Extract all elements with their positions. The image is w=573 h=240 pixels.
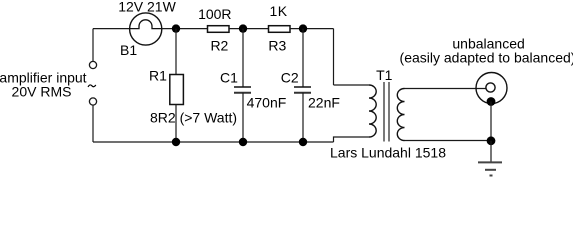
node B junction dot (R2/R3/C1)	[239, 24, 247, 32]
resistor R2 (horizontal)	[208, 26, 230, 33]
transformer T1 primary winding (left coil)	[369, 85, 376, 137]
wire: R3 to top-right corner through node C	[290, 28, 334, 30]
resistor R1 (vertical)	[170, 75, 184, 105]
wire: top-right corner down to T1 primary top	[333, 29, 335, 85]
wire: C2 bottom plate to bottom rail	[302, 93, 304, 142]
wire: C1 bottom plate to bottom rail	[242, 93, 244, 142]
junction dot: C2 to bottom rail	[299, 138, 307, 146]
svg-text:100R: 100R	[198, 6, 231, 22]
svg-text:C2: C2	[281, 69, 299, 85]
wire: node A down to R1 top	[175, 29, 177, 75]
svg-text:470nF: 470nF	[247, 95, 287, 111]
terminal: amplifier input upper (open circle)	[89, 61, 96, 68]
resistor R3 (horizontal)	[269, 26, 291, 33]
svg-text:1K: 1K	[269, 3, 287, 19]
svg-text:(easily adapted to balanced): (easily adapted to balanced)	[400, 50, 573, 66]
wire: node C down to C2 top plate	[302, 29, 304, 87]
label: AC symbol ~	[88, 85, 96, 87]
svg-text:20V RMS: 20V RMS	[12, 84, 72, 100]
junction dot: R1 to bottom rail	[172, 138, 180, 146]
transformer T1 secondary winding (right coil)	[397, 89, 404, 141]
wire: secondary bottom to ground node	[405, 140, 492, 142]
wire: secondary top to output jack centre pin	[405, 88, 487, 90]
node A junction dot (lamp/R2/R1)	[172, 24, 180, 32]
junction dot: jack shield connection	[487, 97, 496, 106]
wire: ground node down to ground symbol	[490, 141, 492, 162]
wire: top-left horizontal from left branch to lamp B1	[93, 28, 130, 30]
wire: horizontal into T1 primary top	[334, 84, 370, 86]
svg-text:R1: R1	[149, 68, 167, 84]
wire: T1 primary bottom back to bottom rail	[334, 137, 370, 142]
svg-text:12V 21W: 12V 21W	[118, 0, 176, 15]
ground symbol	[478, 162, 502, 175]
node C junction dot (R3/C2/T1)	[299, 24, 307, 32]
wire: R2 to R3 through node B	[229, 28, 269, 30]
wire: R1 bottom to bottom rail	[175, 105, 177, 143]
svg-text:C1: C1	[220, 69, 238, 85]
svg-text:Lars Lundahl 1518: Lars Lundahl 1518	[330, 145, 446, 161]
output jack J2 (unbalanced phono: outer circle, centre pin)	[476, 73, 507, 104]
wire: node B down to C1 top plate	[242, 29, 244, 87]
junction dot: secondary bottom / ground	[487, 136, 496, 145]
wire: lamp to node A and on to R2	[162, 28, 208, 30]
capacitor C2	[294, 87, 311, 93]
svg-text:T1: T1	[376, 67, 393, 83]
wire: bottom rail (ground side of primary circuit)	[93, 141, 334, 143]
svg-text:22nF: 22nF	[308, 95, 340, 111]
wire: jack shield down to ground node	[490, 102, 492, 141]
lamp B1 (bulb circle with filament bump)	[130, 13, 162, 45]
svg-text:R3: R3	[268, 38, 286, 54]
wire: left vertical lower (terminal down to bottom rail)	[92, 106, 94, 143]
terminal: amplifier input lower (open circle)	[89, 98, 96, 105]
wire: left vertical upper (corner down to input terminal)	[92, 29, 94, 61]
svg-text:R2: R2	[210, 38, 228, 54]
svg-text:8R2 (>7 Watt): 8R2 (>7 Watt)	[150, 110, 237, 126]
svg-text:B1: B1	[120, 42, 137, 58]
transformer T1 core (two vertical lines)	[384, 82, 389, 142]
junction dot: C1 to bottom rail	[239, 138, 247, 146]
capacitor C1	[234, 87, 251, 93]
